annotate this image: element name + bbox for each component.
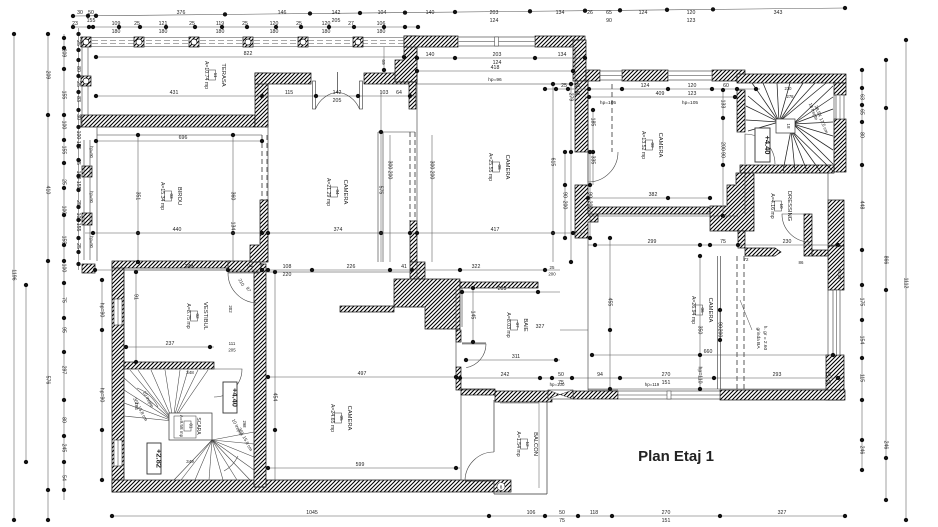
room label baie [505, 312, 528, 337]
svg-text:106: 106 [527, 510, 536, 516]
svg-text:124: 124 [639, 10, 648, 16]
room label birou [159, 182, 182, 210]
svg-text:86: 86 [799, 260, 804, 265]
svg-text:350: 350 [696, 326, 702, 335]
svg-text:hp=100: hp=100 [550, 382, 565, 387]
svg-text:175: 175 [858, 298, 864, 307]
terrace column 4 [243, 37, 253, 47]
svg-text:418: 418 [491, 65, 500, 71]
svg-text:SCARA: SCARA [195, 417, 201, 435]
svg-text:226: 226 [347, 264, 356, 270]
svg-text:660: 660 [704, 349, 713, 355]
svg-text:+4.40: +4.40 [763, 136, 772, 155]
dimension chain top A [71, 6, 847, 24]
scara room label box [174, 415, 201, 438]
wall baie top thin [460, 282, 538, 288]
dimension 133 vertical [719, 88, 725, 218]
svg-text:124: 124 [490, 18, 499, 24]
window left vestibul [114, 299, 122, 325]
svg-text:02: 02 [195, 313, 200, 319]
wall top of camera-25 left part [404, 36, 458, 47]
terrace column 3 [189, 37, 199, 47]
room boundary lines thin [97, 47, 834, 485]
svg-text:200: 200 [716, 329, 722, 338]
dimension 455 vertical [606, 236, 612, 391]
svg-text:151: 151 [662, 380, 671, 386]
svg-text:297: 297 [60, 366, 66, 375]
svg-text:180: 180 [112, 29, 121, 35]
wall top terrace-room right of door [364, 73, 417, 84]
svg-text:205: 205 [228, 348, 236, 353]
svg-text:94: 94 [597, 372, 603, 378]
svg-text:410: 410 [44, 186, 50, 195]
svg-text:205: 205 [332, 18, 341, 24]
dimension 237 vestibul [124, 341, 214, 349]
dimension 311 [464, 354, 560, 362]
wall right below window [834, 119, 846, 172]
dimension 497 [266, 371, 458, 379]
svg-text:83: 83 [75, 96, 81, 102]
svg-text:200: 200 [586, 201, 592, 210]
window left scara [114, 440, 122, 466]
wall camera13-camera25 partition lower [575, 185, 598, 238]
dimension 210-97 door vestibul [237, 278, 252, 293]
svg-text:CAMERA: CAMERA [657, 133, 663, 158]
svg-text:25: 25 [75, 81, 81, 87]
svg-text:65: 65 [858, 109, 864, 115]
dimension 351 vertical [134, 133, 140, 264]
svg-text:299: 299 [648, 239, 657, 245]
dashed lines camera13 interior [611, 84, 613, 152]
wall terrace-room vertical [255, 73, 268, 127]
terrace column 2 [134, 37, 144, 47]
wall spur right of corner [745, 248, 781, 256]
svg-text:409: 409 [656, 91, 665, 97]
svg-text:146: 146 [278, 10, 287, 16]
dimension column left outer 1196 [10, 32, 16, 522]
svg-text:grinda BA: grinda BA [755, 327, 761, 349]
svg-text:63: 63 [858, 94, 864, 100]
svg-text:72: 72 [744, 257, 749, 262]
wall left small block at row [82, 264, 95, 273]
door vestibul-scara [214, 369, 242, 397]
wall bottom main [112, 480, 511, 492]
svg-text:50: 50 [559, 510, 565, 516]
dimension 615 vertical [549, 82, 555, 262]
dimension column left 209-410-576 [44, 32, 50, 522]
dimension 350 vertical [696, 254, 702, 391]
wall stair top [737, 74, 846, 83]
svg-text:151: 151 [662, 518, 671, 524]
svg-text:26: 26 [587, 10, 593, 16]
dimension 91 vertical [132, 270, 138, 364]
svg-text:11: 11 [213, 73, 218, 78]
svg-text:94: 94 [247, 264, 253, 270]
svg-text:hp=90: hp=90 [98, 303, 104, 318]
grinda note [740, 300, 768, 351]
window right-wing 1 [600, 71, 622, 80]
svg-text:A=25.55 mp: A=25.55 mp [487, 153, 493, 181]
wall camera-25 right step down [573, 40, 586, 81]
svg-text:90: 90 [586, 192, 592, 198]
svg-text:124: 124 [641, 83, 650, 89]
svg-text:205: 205 [333, 98, 342, 104]
dim pair camera13 door [586, 150, 592, 240]
svg-text:25: 25 [60, 179, 66, 185]
door camera25-13 [588, 152, 618, 182]
svg-text:440: 440 [173, 227, 182, 233]
stair top-right winder [746, 83, 833, 171]
svg-text:180: 180 [216, 29, 225, 35]
svg-text:133: 133 [719, 100, 725, 109]
svg-text:41: 41 [401, 264, 407, 270]
svg-text:200: 200 [548, 272, 556, 277]
svg-text:123: 123 [688, 91, 697, 97]
dimension chain bottom [110, 510, 847, 524]
dimension chain top B [71, 21, 420, 35]
dimension chain middle 440-374-417 [85, 227, 585, 235]
wall right corner bottom [826, 355, 844, 400]
dimension 599 [266, 462, 460, 470]
wall dressing ledge [812, 250, 830, 256]
svg-text:246: 246 [858, 446, 864, 455]
svg-text:100: 100 [60, 264, 66, 273]
svg-text:hp=90: hp=90 [89, 236, 94, 248]
svg-text:65: 65 [606, 10, 612, 16]
svg-text:VESTIBUL: VESTIBUL [202, 302, 208, 331]
dimension 575 vertical [377, 90, 383, 262]
svg-text:180: 180 [270, 29, 279, 35]
svg-text:hp=105: hp=105 [682, 100, 698, 106]
wall birou-camera partition hatched part [250, 200, 268, 262]
wall camera21 partition foot [410, 262, 425, 279]
wall central mass [394, 279, 460, 329]
title Plan Etaj 1 [638, 448, 714, 465]
dim pair camera25 door [561, 150, 567, 240]
room label camera25 [487, 153, 510, 181]
svg-text:69: 69 [380, 59, 386, 65]
stair bottom labels [132, 370, 254, 464]
svg-text:hp=119: hp=119 [645, 382, 660, 387]
door dressing [782, 214, 810, 242]
svg-text:200: 200 [386, 171, 392, 180]
misc small dim labels [548, 257, 842, 357]
dimension chain terrace 822 [94, 51, 406, 59]
svg-text:111: 111 [229, 341, 236, 346]
svg-text:50: 50 [558, 372, 564, 378]
svg-text:448: 448 [858, 201, 864, 210]
wall camera13-camera25 partition upper [575, 81, 588, 152]
svg-text:327: 327 [536, 324, 545, 330]
svg-text:75: 75 [60, 297, 66, 303]
wall right upper [834, 83, 846, 95]
wall baie west pier upper [456, 330, 461, 342]
svg-text:hp=90: hp=90 [98, 388, 104, 403]
svg-text:CAMERA: CAMERA [504, 155, 510, 180]
svg-text:07: 07 [515, 322, 520, 328]
wall left exterior birou upper pier [82, 166, 92, 177]
wall bottom camera24 edge [461, 389, 495, 395]
svg-text:1196: 1196 [10, 269, 16, 280]
svg-text:279: 279 [567, 93, 573, 102]
svg-text:25: 25 [75, 243, 81, 249]
svg-text:203: 203 [490, 10, 499, 16]
dim pair camera26 door [716, 308, 722, 342]
wall left of central mass thin [340, 306, 394, 312]
dimension chain 299-75-230 [588, 239, 840, 247]
svg-text:30: 30 [75, 114, 81, 120]
dimension 454 vertical [271, 270, 277, 480]
svg-text:CAMERA: CAMERA [346, 406, 352, 431]
svg-text:CAMERA: CAMERA [342, 180, 348, 205]
dashed partition camera21 east [410, 132, 415, 221]
svg-text:BIROU: BIROU [176, 187, 182, 205]
svg-text:360: 360 [229, 192, 235, 201]
window sill top right-wing [622, 70, 668, 81]
svg-text:200: 200 [428, 171, 434, 180]
hp=105 notes [600, 100, 698, 106]
dimension 111-205 door vestibul-scara [228, 305, 236, 352]
svg-text:348: 348 [185, 264, 194, 270]
svg-text:A=4.16 mp: A=4.16 mp [769, 193, 775, 218]
svg-text:349: 349 [186, 459, 194, 464]
svg-text:220: 220 [283, 272, 292, 278]
dimension 382 [586, 192, 712, 200]
dimension column left near-wall [75, 28, 81, 270]
svg-text:200: 200 [561, 201, 567, 210]
dim hp90 left [98, 278, 104, 482]
window left wall birou [84, 140, 90, 260]
door stair left [745, 134, 775, 164]
svg-text:A=1.54 mp: A=1.54 mp [515, 431, 521, 456]
dimension 69 vertical near step [380, 47, 386, 73]
svg-text:376: 376 [177, 10, 186, 16]
svg-text:BAIE: BAIE [522, 318, 528, 331]
dimension column right mid [882, 58, 888, 502]
svg-text:134: 134 [556, 10, 565, 16]
door vestibul top [228, 273, 258, 303]
level marker +2.82 [147, 443, 164, 474]
svg-text:200 90: 200 90 [719, 142, 725, 158]
svg-text:245: 245 [60, 444, 66, 453]
svg-text:01: 01 [189, 424, 194, 429]
svg-text:270: 270 [662, 372, 671, 378]
terrace column 1 [81, 37, 91, 47]
svg-text:25: 25 [75, 40, 81, 46]
svg-text:866: 866 [882, 256, 888, 265]
svg-text:311: 311 [512, 354, 520, 360]
dimension 205 baie [460, 286, 560, 294]
wall thin below step [409, 82, 416, 109]
terrace column 5 [298, 37, 308, 47]
svg-text:03: 03 [169, 193, 174, 199]
svg-text:55: 55 [574, 83, 580, 89]
svg-text:298: 298 [242, 421, 247, 429]
svg-text:575: 575 [377, 186, 383, 195]
svg-text:118: 118 [590, 510, 598, 516]
svg-text:145: 145 [469, 311, 475, 320]
wall vestibul-scara divider [124, 362, 214, 369]
dimension line left x26 [24, 283, 28, 464]
hp notes bottom [550, 382, 660, 387]
svg-text:123: 123 [687, 18, 696, 24]
svg-text:431: 431 [170, 90, 179, 96]
wall right mid1 [828, 200, 844, 246]
svg-text:120: 120 [687, 10, 696, 16]
wall left exterior birou lower pier [82, 213, 92, 225]
svg-text:8: 8 [500, 485, 503, 490]
door baie [462, 344, 486, 368]
window bottom right-wing long [618, 391, 720, 399]
svg-text:+2.82: +2.82 [155, 449, 164, 468]
svg-text:DRESSING: DRESSING [786, 191, 792, 222]
svg-text:120: 120 [688, 83, 697, 89]
svg-text:80: 80 [858, 132, 864, 138]
dimension 279 vertical [567, 82, 573, 264]
room label camera24 [329, 404, 352, 432]
level marker +4.40 bottom stair [223, 382, 240, 413]
svg-text:100: 100 [60, 121, 66, 130]
window right-wing 2 [668, 71, 712, 80]
wall top-right step vertical [395, 36, 417, 82]
svg-text:A=8.03 mp: A=8.03 mp [505, 312, 511, 337]
svg-text:180: 180 [159, 29, 168, 35]
dimension 360 vertical [229, 133, 235, 262]
svg-text:335: 335 [589, 156, 595, 165]
svg-text:142: 142 [332, 10, 341, 16]
svg-text:293: 293 [773, 372, 782, 378]
svg-text:A=24.65 mp: A=24.65 mp [329, 404, 335, 432]
svg-text:300: 300 [386, 161, 392, 170]
svg-text:374: 374 [334, 227, 343, 233]
svg-text:246: 246 [882, 441, 888, 450]
svg-text:351: 351 [134, 192, 140, 201]
svg-text:+4.40: +4.40 [231, 388, 240, 407]
svg-text:12: 12 [525, 441, 530, 447]
svg-text:1045: 1045 [306, 510, 318, 516]
wall right mid2 [828, 246, 844, 290]
wall stair left [737, 90, 745, 132]
svg-text:230: 230 [783, 239, 792, 245]
room label camera13 [640, 131, 663, 159]
svg-text:hp=110: hp=110 [696, 366, 702, 383]
svg-text:155: 155 [60, 91, 66, 100]
svg-text:278: 278 [787, 94, 795, 99]
wall birou-vestibul horizontal [112, 261, 230, 268]
svg-text:25: 25 [550, 265, 555, 270]
svg-text:242: 242 [501, 372, 510, 378]
svg-text:10: 10 [779, 203, 784, 209]
svg-text:599: 599 [356, 462, 365, 468]
svg-text:18: 18 [825, 372, 831, 378]
svg-text:822: 822 [244, 51, 253, 57]
svg-text:04: 04 [335, 189, 340, 195]
dimension column right outer [902, 38, 908, 522]
dimension chain top camera25 b [415, 65, 575, 73]
svg-text:h. gr = 2.60: h. gr = 2.60 [762, 326, 768, 351]
svg-text:180: 180 [322, 29, 331, 35]
svg-text:455: 455 [606, 298, 612, 307]
svg-text:202: 202 [228, 305, 233, 313]
svg-text:203: 203 [493, 52, 502, 58]
svg-text:327: 327 [778, 510, 787, 516]
svg-text:134: 134 [229, 222, 235, 231]
dimension 696 [94, 135, 264, 143]
svg-text:18: 18 [786, 123, 791, 129]
svg-text:194: 194 [134, 402, 139, 410]
dim pair camera21 b [428, 135, 434, 262]
svg-text:A=26.94 mp: A=26.94 mp [690, 296, 696, 324]
dimension chain terrace inner [94, 90, 417, 104]
svg-text:104: 104 [378, 10, 387, 16]
room label balcon [515, 431, 538, 456]
window right wall lower [833, 290, 840, 355]
svg-text:108: 108 [283, 264, 292, 270]
room label camera21 [325, 178, 348, 206]
wall top right-wing seg1 [586, 70, 600, 81]
wall bottom right-wing seg2 [573, 391, 618, 399]
svg-text:A=13.52 mp: A=13.52 mp [640, 131, 646, 159]
dashed partition birou-camera [262, 135, 267, 200]
stair top-right labels [808, 102, 830, 134]
svg-text:54: 54 [60, 475, 66, 481]
dimension 185-335 vertical [589, 108, 595, 185]
stair bottom-left [124, 370, 254, 480]
svg-text:09: 09 [650, 142, 655, 148]
svg-text:56,00: 56,00 [837, 269, 842, 280]
terrace left column [81, 76, 91, 86]
wall big corner block right wing [710, 173, 754, 231]
svg-text:115: 115 [858, 374, 864, 382]
window bowtie bottom [548, 390, 573, 399]
svg-text:348: 348 [186, 370, 194, 375]
svg-text:180: 180 [377, 29, 386, 35]
svg-text:155: 155 [60, 146, 66, 155]
svg-text:417: 417 [491, 227, 500, 233]
svg-text:140: 140 [426, 52, 435, 58]
hp=96 note [488, 77, 502, 83]
svg-text:615: 615 [549, 158, 555, 167]
wall top right-wing corner [712, 70, 745, 81]
svg-text:205: 205 [498, 286, 507, 292]
window right wall upper [836, 95, 844, 119]
svg-text:A=9.58 mp: A=9.58 mp [179, 415, 184, 438]
circled 8 marker [497, 483, 505, 491]
svg-text:91: 91 [132, 294, 138, 300]
room label dressing [769, 191, 792, 222]
dimension chain right-wing top b [585, 91, 737, 99]
svg-text:34: 34 [825, 380, 831, 386]
svg-text:75: 75 [720, 239, 726, 245]
svg-text:64: 64 [396, 90, 402, 96]
dimension chain right-wing top a [543, 83, 760, 97]
svg-text:185: 185 [589, 118, 595, 127]
svg-text:80: 80 [75, 66, 81, 72]
svg-text:1112: 1112 [902, 278, 908, 289]
dim pair camera21 a [386, 135, 392, 262]
svg-text:90: 90 [606, 18, 612, 24]
wall top terrace-room left of door [255, 73, 311, 84]
svg-text:497: 497 [358, 371, 367, 377]
svg-text:hp=105: hp=105 [600, 100, 616, 106]
wall bottom right-wing main [720, 390, 845, 400]
dimension column right inner [858, 68, 864, 472]
wall baie west pier lower [456, 367, 461, 390]
svg-text:322: 322 [472, 264, 481, 270]
dimension chain top camera25 a [415, 52, 587, 66]
terrace left edge [82, 37, 88, 127]
svg-text:115: 115 [285, 90, 293, 96]
